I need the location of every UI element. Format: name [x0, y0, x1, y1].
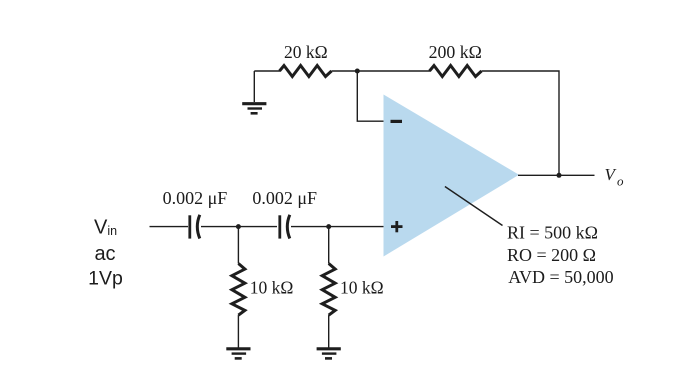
op-amp minus sign — [391, 120, 403, 123]
svg-text:RI = 500 kΩ: RI = 500 kΩ — [507, 222, 598, 242]
wire between resistors — [332, 70, 431, 72]
svg-text:10 kΩ: 10 kΩ — [340, 278, 384, 298]
wire top-left vertical to ground — [253, 71, 255, 102]
wire C2 to plus input — [291, 226, 384, 228]
svg-text:20 kΩ: 20 kΩ — [284, 42, 328, 62]
resistor 20k — [280, 66, 332, 77]
junction dot node B — [236, 224, 241, 229]
resistor R4 10k vertical — [322, 264, 335, 316]
capacitor C2 0.002uF — [280, 215, 290, 239]
op-amp U1 — [384, 95, 520, 257]
wire node A down to inverting input — [357, 71, 383, 121]
svg-text:0.002 μF: 0.002 μF — [252, 188, 317, 208]
resistor 200k — [430, 66, 482, 77]
wire 200k to right corner and down to output — [482, 71, 560, 175]
wire R3 to ground — [237, 315, 239, 347]
ground (R4) — [317, 349, 341, 359]
wire output — [518, 174, 595, 176]
junction dot node C — [326, 224, 331, 229]
op-amp plus sign — [391, 221, 403, 232]
wire input from Vin — [150, 226, 189, 228]
capacitor C1 0.002uF — [190, 215, 200, 239]
resistor R3 10k vertical — [232, 264, 245, 316]
svg-text:AVD = 50,000: AVD = 50,000 — [508, 267, 613, 287]
svg-text:1Vp: 1Vp — [88, 268, 123, 290]
svg-text:200 kΩ: 200 kΩ — [429, 42, 482, 62]
svg-text:0.002 μF: 0.002 μF — [163, 188, 228, 208]
wire top-left horizontal to 20k — [254, 70, 280, 72]
svg-text:ac: ac — [94, 243, 115, 265]
svg-text:RO = 200 Ω: RO = 200 Ω — [507, 245, 596, 265]
ground (R3) — [226, 349, 250, 359]
wire C1 to C2 — [201, 226, 277, 228]
ground (top-left) — [242, 104, 266, 114]
svg-text:o: o — [617, 173, 624, 188]
wire node B down to R3 — [237, 227, 239, 264]
svg-text:10 kΩ: 10 kΩ — [250, 278, 294, 298]
pointer line to RI text — [445, 187, 503, 226]
node A junction dot — [355, 69, 360, 74]
output junction dot — [557, 173, 562, 178]
wire R4 to ground — [328, 315, 330, 347]
wire node C down to R4 — [328, 227, 330, 264]
